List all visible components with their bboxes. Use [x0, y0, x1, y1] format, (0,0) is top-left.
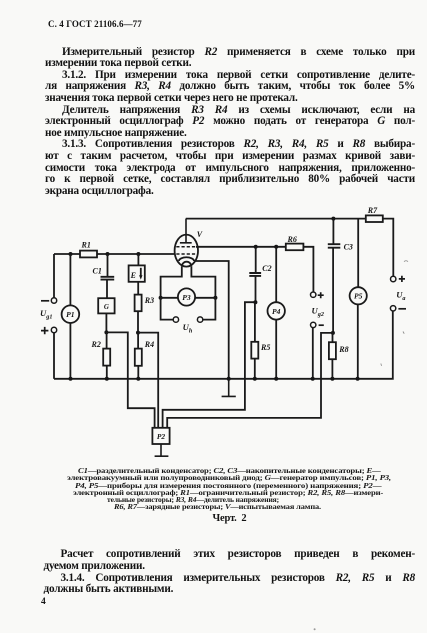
- tube V heater: [182, 262, 192, 267]
- wire grid2 rail: [196, 246, 286, 248]
- wire R7 to Ua plus: [383, 219, 394, 277]
- wire node-R3R4 to oscilloscope P2 input 2: [138, 333, 158, 428]
- svg-text:Ug2: Ug2: [312, 305, 324, 318]
- tube V grid 1 (dashed): [176, 253, 196, 255]
- body text block 1: [45, 47, 415, 59]
- tube V grid 2 (dashed): [176, 246, 196, 248]
- wire node to R4: [137, 333, 139, 349]
- wire bottom bus: [54, 378, 393, 380]
- node R2 bus junction: [105, 377, 109, 381]
- wire node to R8: [332, 333, 334, 342]
- wire P5 upper: [357, 219, 359, 288]
- header: [48, 19, 142, 29]
- wire R2 to bus: [106, 366, 108, 379]
- wire cathode to ground: [194, 261, 229, 379]
- wire Uh right: [203, 298, 216, 320]
- wire C3 top lead: [332, 219, 334, 244]
- wire node-R5 to oscilloscope P2 input 3: [163, 302, 256, 428]
- terminal Ug1 minus: [51, 298, 56, 303]
- wire C2 to node: [255, 277, 257, 303]
- svg-text:R6: R6: [287, 235, 297, 244]
- label plus Ug2: [318, 292, 324, 298]
- scan speck below P5 branch: [380, 364, 383, 366]
- wire R6 to Ug2 plus: [303, 247, 313, 292]
- svg-text:Ua: Ua: [396, 289, 405, 302]
- node Ug2 bus junction: [311, 377, 315, 381]
- svg-text:Uh: Uh: [183, 322, 193, 335]
- label plus Ua: [399, 276, 405, 282]
- wire P3 right lead: [195, 297, 215, 299]
- svg-text:R1: R1: [81, 240, 91, 249]
- node heater left junction: [159, 296, 163, 300]
- wire R8 to bus: [331, 359, 333, 379]
- node G bottom junction: [104, 330, 108, 334]
- node P4 top junction: [274, 245, 278, 249]
- terminal Uh right: [197, 317, 202, 322]
- svg-text:C1: C1: [93, 267, 102, 276]
- label minus Ua: [398, 308, 406, 310]
- wire P1 branch upper: [69, 254, 71, 306]
- svg-text:R5: R5: [260, 343, 270, 352]
- svg-text:R8: R8: [338, 345, 348, 354]
- wire left source bottom: [53, 333, 55, 379]
- svg-text:Р2: Р2: [157, 432, 166, 441]
- wire grid1 rail left segment: [54, 253, 80, 255]
- resistor R3: [135, 295, 142, 312]
- wire heater leg left: [161, 267, 182, 298]
- wire node to R5: [254, 302, 256, 342]
- wire node-G to oscilloscope P2 input 1: [106, 332, 154, 427]
- svg-text:C3: C3: [344, 242, 353, 251]
- svg-text:Р3: Р3: [182, 293, 191, 302]
- node P5 bus junction: [356, 377, 360, 381]
- scan speck near Ua: [404, 260, 408, 263]
- wire P4 upper: [275, 247, 277, 302]
- node R4 bus junction: [136, 377, 140, 381]
- svg-text:E: E: [130, 271, 136, 280]
- wire P4 lower: [275, 320, 277, 379]
- meter P4: [268, 302, 285, 319]
- svg-text:G: G: [104, 303, 109, 311]
- capacitor C3: [328, 244, 341, 248]
- node C2 R5 junction: [253, 300, 257, 304]
- resistor R7: [366, 215, 383, 222]
- meter P3: [178, 288, 195, 305]
- svg-text:R2: R2: [91, 340, 101, 349]
- node C3 top junction: [331, 217, 335, 221]
- oscilloscope P2: [152, 428, 169, 444]
- svg-text:Р4: Р4: [272, 307, 281, 316]
- node P1 top junction: [69, 252, 73, 256]
- svg-text:Р1: Р1: [66, 310, 75, 319]
- label minus Ug1: [41, 300, 49, 302]
- svg-text:R4: R4: [144, 340, 154, 349]
- meter P1: [62, 305, 80, 323]
- scan speck right of R8: [403, 332, 404, 334]
- node C2 top junction: [254, 245, 258, 249]
- terminal Ug2 minus: [311, 322, 316, 327]
- wire grid1 rail right segment: [97, 253, 174, 255]
- wire left source top: [53, 254, 55, 298]
- label plus Ug1: [41, 327, 48, 334]
- wire C2 top lead: [255, 247, 257, 273]
- resistor R8: [329, 342, 336, 359]
- wire Ug2 minus to bus: [312, 328, 314, 379]
- wire G to node: [105, 313, 107, 332]
- wire E top lead: [137, 254, 139, 265]
- node R5 bus junction: [253, 377, 257, 381]
- resistor R2: [103, 349, 110, 366]
- node R3 R4 junction: [136, 331, 140, 335]
- terminal Ug1 plus: [51, 327, 56, 332]
- wire C3 to node: [332, 248, 334, 333]
- ground (oscilloscope P2): [155, 444, 169, 456]
- resistor R4: [135, 349, 142, 366]
- wire anode rail: [186, 218, 366, 220]
- wire node to R2: [106, 332, 108, 348]
- node R8 bus junction: [330, 377, 334, 381]
- svg-text:V: V: [197, 230, 203, 239]
- svg-text:Ug1: Ug1: [40, 308, 52, 321]
- terminal Ug2 plus: [311, 292, 316, 297]
- node C1 top junction: [106, 252, 110, 256]
- meter P5: [350, 287, 367, 304]
- capacitor C2: [249, 273, 261, 276]
- svg-text:R7: R7: [367, 206, 378, 215]
- ground (cathode): [222, 379, 236, 397]
- node P1 bus junction: [69, 377, 73, 381]
- wire Uh left: [161, 298, 174, 320]
- wire R5 to bus: [254, 359, 256, 379]
- wire heater leg right: [191, 267, 215, 298]
- wire R4 to bus: [137, 366, 139, 379]
- diode E: [129, 265, 145, 281]
- wire Ua minus to bus: [392, 311, 394, 379]
- wire P1 branch lower: [69, 323, 71, 379]
- resistor R5: [251, 342, 258, 359]
- tube V anode: [180, 219, 192, 243]
- tube V cathode: [179, 257, 194, 261]
- wire R3 to node: [137, 311, 139, 332]
- figure legend: [78, 467, 381, 474]
- label minus Ug2: [319, 324, 324, 326]
- svg-text:Р5: Р5: [354, 292, 363, 301]
- svg-text:R3: R3: [144, 296, 154, 305]
- figure caption: [213, 513, 247, 524]
- wire P5 lower: [357, 304, 359, 379]
- generator G: [98, 298, 114, 313]
- wire E to R3: [137, 282, 139, 295]
- scan speck bottom: [312, 627, 318, 632]
- node C3 R8 junction: [331, 331, 335, 335]
- page number: [41, 597, 46, 607]
- wire C1 top lead: [107, 254, 109, 276]
- terminal Ua minus: [390, 306, 395, 311]
- wire C1 to G: [106, 280, 108, 298]
- node heater right junction: [213, 296, 217, 300]
- resistor R6: [286, 244, 304, 251]
- resistor R1: [80, 251, 97, 258]
- wire P3 left lead: [161, 297, 178, 299]
- node cathode bus junction: [227, 377, 231, 381]
- tube V envelope: [175, 235, 198, 267]
- terminal Ua plus: [391, 276, 396, 281]
- terminal Uh left: [173, 317, 178, 322]
- capacitor C1: [101, 277, 115, 280]
- wire node-R8 to oscilloscope P2 input 4: [167, 333, 333, 428]
- svg-text:C2: C2: [262, 264, 271, 273]
- node P4 bus junction: [274, 377, 278, 381]
- node E top junction: [136, 252, 140, 256]
- bottom text: [44, 549, 416, 561]
